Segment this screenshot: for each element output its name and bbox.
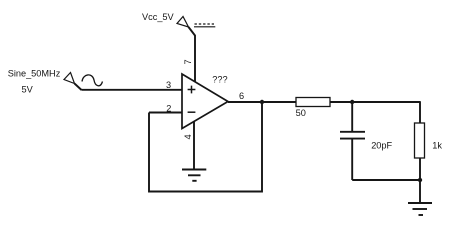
svg-text:Sine_50MHz: Sine_50MHz xyxy=(8,69,61,79)
Vcc dashed marker xyxy=(195,23,215,25)
svg-text:3: 3 xyxy=(166,80,171,90)
junction capacitor node xyxy=(350,100,354,104)
wire input to pin 3 xyxy=(82,89,183,91)
ground symbol bottom right xyxy=(408,203,432,215)
input port lead xyxy=(75,84,82,91)
svg-text:50: 50 xyxy=(296,108,306,118)
feedback wire output to inverting input xyxy=(149,102,262,192)
wire resistor 1k to ground xyxy=(419,158,421,203)
wire output pin 6 xyxy=(228,101,296,103)
svg-text:20pF: 20pF xyxy=(371,140,392,150)
wire corner down to resistor 1k xyxy=(419,101,421,123)
Vcc solid marker xyxy=(194,26,215,28)
wire feedback to pin 2 xyxy=(149,112,182,114)
ground symbol under op-amp xyxy=(182,170,206,181)
resistor R2 1k xyxy=(415,123,425,158)
capacitor C1 plates xyxy=(340,132,365,139)
op-amp minus input marker xyxy=(188,111,196,113)
svg-text:1k: 1k xyxy=(432,141,442,151)
svg-text:6: 6 xyxy=(239,91,244,101)
capacitor C1 top lead xyxy=(351,102,353,131)
op-amp plus input marker xyxy=(188,86,196,94)
svg-text:???: ??? xyxy=(212,74,227,84)
wire resistor to corner xyxy=(330,101,420,103)
junction bottom node xyxy=(418,178,422,182)
wire Vcc lead to pin 7 xyxy=(189,27,196,82)
junction output node xyxy=(260,100,264,104)
capacitor C1 bottom lead xyxy=(351,140,353,181)
op-amp U1 triangle xyxy=(182,74,228,129)
svg-text:2: 2 xyxy=(166,104,171,114)
input port symbol V1 triangle xyxy=(64,73,75,84)
sine wave icon xyxy=(82,75,103,86)
svg-text:5V: 5V xyxy=(22,84,34,94)
resistor R1 50 xyxy=(296,98,330,107)
Vcc power symbol triangle xyxy=(177,17,189,28)
wire capacitor bottom to 1k bottom xyxy=(352,179,420,181)
svg-text:4: 4 xyxy=(183,134,193,139)
svg-text:Vcc_5V: Vcc_5V xyxy=(142,12,175,22)
svg-text:7: 7 xyxy=(183,59,193,64)
wire pin 4 to ground xyxy=(193,122,195,170)
